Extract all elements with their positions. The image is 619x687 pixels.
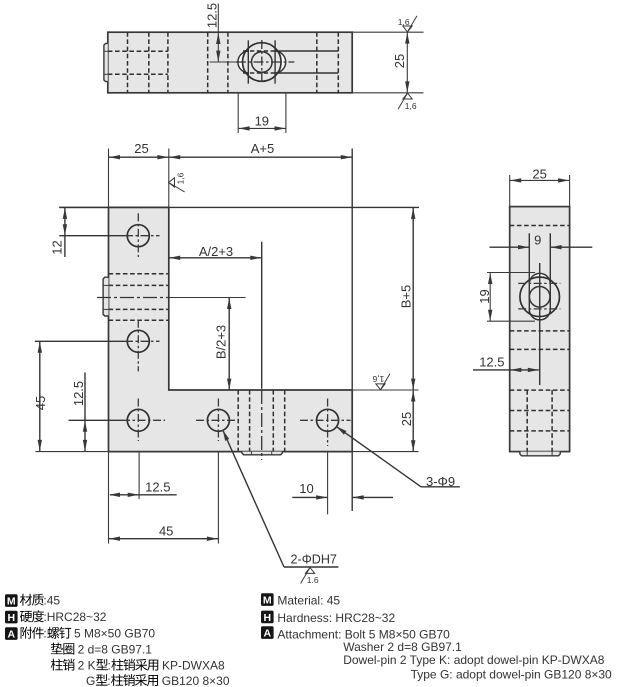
note left line 1 [20,594,32,606]
top view left tab [104,43,108,81]
svg-text:1,6: 1,6 [398,17,410,27]
svg-text:1,6: 1,6 [176,172,186,184]
svg-text:A+5: A+5 [251,141,275,156]
note left line 2 [20,611,32,622]
dimension 12.5 (top) [217,4,219,63]
svg-text:Material: 45: Material: 45 [277,594,340,608]
surface finish under 2-PhiDH7 [301,568,315,584]
hidden boss lines on bottom arm [238,390,285,452]
svg-text:Dowel-pin 2 Type K: adopt dowe: Dowel-pin 2 Type K: adopt dowel-pin KP-D… [343,653,605,667]
svg-text:12.5: 12.5 [205,3,220,28]
svg-text:12.5: 12.5 [479,355,504,370]
svg-text:12.5: 12.5 [71,381,86,406]
dimension 45 (left) [39,341,41,451]
hole B1 [127,409,149,431]
svg-text:12.5: 12.5 [145,479,170,494]
extension lines above [109,149,169,208]
dimension B/2+3 [228,298,230,391]
left boss centerline [97,297,169,299]
hole edge lines [247,40,249,83]
dimension 25 / A+5 (top) [109,156,353,158]
hidden counterbore lines [518,282,560,284]
hidden boss edges [243,50,281,52]
side view bottom tab [520,452,560,456]
badge A (right) [261,626,274,639]
svg-text:19: 19 [255,113,269,128]
badge H (left) [5,611,18,624]
svg-text:25: 25 [392,54,407,68]
svg-text:M: M [7,596,16,608]
dimension 19 [238,93,286,133]
svg-text:B/2+3: B/2+3 [214,325,229,359]
dimension 12.5 (bottom) [110,494,177,496]
svg-text:B+5: B+5 [399,285,414,309]
dimension 12 (left) [59,206,108,208]
svg-text:Hardness: HRC28~32: Hardness: HRC28~32 [277,611,395,625]
svg-text:M: M [263,595,272,607]
top view body [108,32,352,93]
svg-text:H: H [8,612,16,624]
slot edge extensions (9 dim refs) [281,50,338,52]
side view body [510,207,570,452]
bottom tab [242,452,282,455]
hidden lines [510,226,570,452]
top view hidden hole lines [108,32,338,93]
svg-text:3-Φ9: 3-Φ9 [426,474,455,489]
L-bracket outline [109,207,353,451]
extension lines below [36,390,419,544]
svg-text:A: A [264,628,272,640]
dimension A/2+3 [169,257,262,259]
svg-text:KP-DWXA8: KP-DWXA8 [162,659,225,673]
L-bracket body [109,207,353,451]
svg-text:A: A [8,629,16,641]
note left line 3 [21,627,32,639]
dimension 9 (side) [490,246,530,248]
svg-text::HRC28~32: :HRC28~32 [43,610,106,624]
dimension 12.5 (left) [84,372,86,451]
surface finish on arm edge (rotated) [169,178,185,192]
dimension 19 (side) [487,273,535,322]
boss end arcs [529,273,550,284]
hole centerline [539,263,541,385]
svg-text:10: 10 [299,481,313,496]
hole edge lines [528,233,530,313]
top view boss obround [238,51,286,73]
svg-text:9: 9 [534,233,541,248]
svg-text:12: 12 [50,240,65,254]
centerlines [210,61,236,63]
badge A (left) [5,627,18,640]
svg-text:19: 19 [477,289,492,303]
dimension 25 (front right) [412,390,414,452]
left side tab [103,277,108,316]
svg-text:H: H [264,612,272,624]
svg-text:Type G: adopt dowel-pin GB120: Type G: adopt dowel-pin GB120 8×30 [411,668,612,682]
hole V1 [127,225,149,247]
dimension 45 (bottom) [109,538,219,540]
svg-text:25: 25 [134,141,148,156]
svg-text::: : [107,674,110,687]
svg-text:1.6: 1.6 [307,575,319,585]
plate outline top/right thin lines [59,206,419,208]
svg-text:GB120 8×30: GB120 8×30 [162,674,230,687]
dimension 10 (bottom) [292,496,327,498]
surface finish symbol bottom [398,93,412,109]
hidden boss lines on vertical arm [109,274,169,321]
dimension 25 (top view right) [352,32,423,93]
svg-text:1,6: 1,6 [372,374,384,384]
hole B2 [207,409,229,431]
surface finish symbol top [403,16,417,32]
hole V2 [127,330,149,352]
svg-text:25: 25 [399,412,414,426]
badge H (right) [261,611,274,624]
svg-text:A/2+3: A/2+3 [199,244,233,259]
note left line 5 [51,659,63,671]
svg-text::: : [43,627,46,641]
svg-text::45: :45 [43,594,60,608]
svg-text:2 d=8 GB97.1: 2 d=8 GB97.1 [78,643,153,657]
leader 2-PhiDH7 [223,430,284,567]
dimension 12.5 (side) [473,369,539,371]
through hole [529,287,550,308]
hole B3 [317,409,339,431]
note left line 4 [51,643,63,655]
svg-text:5 M8×50 GB70: 5 M8×50 GB70 [74,627,155,641]
svg-text:45: 45 [33,396,48,410]
svg-text:45: 45 [159,524,173,539]
svg-text:2-ΦDH7: 2-ΦDH7 [291,553,337,567]
counterbore circle [242,43,281,82]
badge M (right) [261,593,274,606]
svg-text:G: G [86,674,95,687]
dimension B+5 [412,207,414,390]
svg-text::: : [108,659,111,673]
dimension 25 (side top) [510,175,570,207]
svg-text:Washer 2 d=8 GB97.1: Washer 2 d=8 GB97.1 [343,640,462,654]
svg-text:25: 25 [532,166,546,181]
through hole circle [251,52,272,73]
side boss obround [529,273,550,320]
svg-text:2 K: 2 K [78,659,96,673]
surface finish at notch bottom (text upside down) [376,374,390,390]
boss end arcs [238,51,249,73]
bottom boss centerline [261,242,263,389]
counterbore circle [520,277,560,317]
badge M (left) [5,594,18,607]
svg-text:1,6: 1,6 [405,101,417,111]
leader 3-Phi9 [336,426,421,486]
